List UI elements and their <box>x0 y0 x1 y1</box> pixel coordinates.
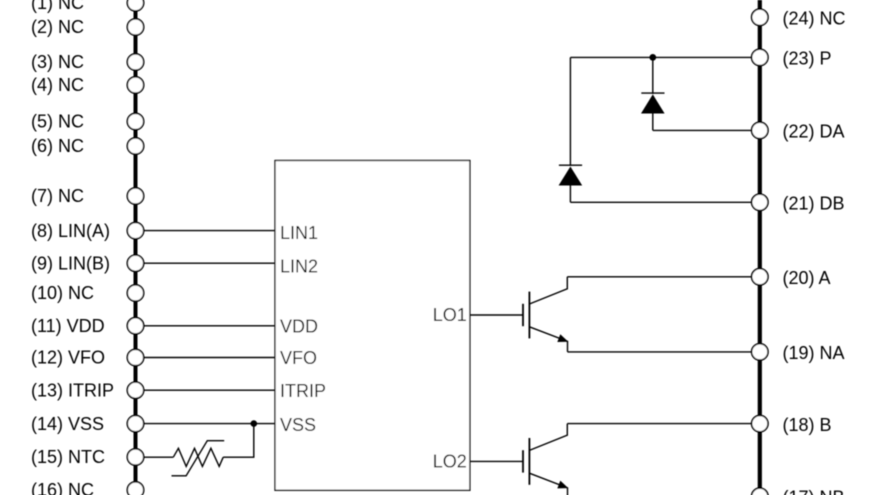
wire D2 anode to pin 21 DB <box>570 201 751 203</box>
pin 9 circle <box>127 255 143 271</box>
pin 14 circle <box>127 415 143 431</box>
wire pin 15 NTC to thermistor <box>144 456 174 458</box>
pin 13 circle <box>127 382 143 398</box>
transistor Q2 emitter arrow <box>557 481 568 489</box>
pin 2 circle <box>127 19 143 35</box>
svg-text:LIN2: LIN2 <box>280 257 318 277</box>
pin 20 circle <box>752 269 768 285</box>
diode D1 triangle <box>641 94 665 113</box>
transistor Q2 collector lead <box>529 424 567 451</box>
svg-text:(1) NC: (1) NC <box>31 0 84 13</box>
svg-text:(22) DA: (22) DA <box>783 122 845 142</box>
transistor Q2 emitter lead <box>529 473 567 495</box>
pin 24 circle <box>752 9 768 25</box>
svg-text:(11) VDD: (11) VDD <box>31 316 105 336</box>
svg-text:(10) NC: (10) NC <box>31 283 94 303</box>
svg-text:(8) LIN(A): (8) LIN(A) <box>31 221 110 241</box>
pin 12 circle <box>127 349 143 365</box>
svg-text:(23) P: (23) P <box>783 49 832 69</box>
junction dot on P wire <box>649 54 656 61</box>
diode D2 triangle <box>559 167 583 186</box>
transistor Q1 body bar <box>528 292 530 339</box>
diode D1 anode lead <box>652 114 654 131</box>
diode D1 cathode bar <box>641 92 664 94</box>
svg-text:(21) DB: (21) DB <box>783 194 845 214</box>
pin 18 circle <box>752 415 768 431</box>
junction dot on VSS wire <box>251 420 258 427</box>
wire D1 anode to pin 22 DA <box>653 129 752 131</box>
svg-text:(7) NC: (7) NC <box>31 186 84 206</box>
pin 3 circle <box>127 54 143 70</box>
svg-text:(2) NC: (2) NC <box>31 17 84 37</box>
wire pin 12 VFO to U1 <box>144 357 275 359</box>
pin 11 circle <box>127 318 143 334</box>
svg-text:(18) B: (18) B <box>783 415 832 435</box>
pin 8 circle <box>127 222 143 238</box>
pin 15 circle <box>127 449 143 465</box>
IC block U1 <box>275 161 470 491</box>
wire U1 LO2 output to gate <box>470 460 523 462</box>
svg-text:ITRIP: ITRIP <box>280 381 326 401</box>
transistor Q1 gate bar <box>522 304 524 326</box>
wire pin 11 VDD to U1 <box>144 325 275 327</box>
transistor Q1 collector lead <box>529 277 567 304</box>
wire pin 14 VSS to U1 <box>144 423 275 425</box>
svg-text:(14) VSS: (14) VSS <box>31 414 104 434</box>
svg-text:LO1: LO1 <box>433 305 467 325</box>
wire pin 13 ITRIP to U1 <box>144 389 275 391</box>
svg-text:(4) NC: (4) NC <box>31 75 84 95</box>
pin 10 circle <box>127 285 143 301</box>
pin 19 circle <box>752 344 768 360</box>
svg-text:(5) NC: (5) NC <box>31 112 84 132</box>
right pin bus (pins 17-24) <box>758 0 762 495</box>
svg-text:VFO: VFO <box>280 348 317 368</box>
svg-text:VSS: VSS <box>280 415 316 435</box>
diode D2 anode lead <box>569 186 571 203</box>
diode D2 cathode bar <box>559 164 582 166</box>
wire collector to bus <box>567 276 751 278</box>
svg-text:(20) A: (20) A <box>783 268 831 288</box>
svg-text:(12) VFO: (12) VFO <box>31 348 105 368</box>
svg-text:(19) NA: (19) NA <box>783 343 845 363</box>
svg-text:VDD: VDD <box>280 317 318 337</box>
transistor Q2 gate bar <box>522 450 524 472</box>
svg-text:(6) NC: (6) NC <box>31 136 84 156</box>
diode D1 (P to DA) cathode lead <box>652 57 654 94</box>
pin 6 circle <box>127 138 143 154</box>
left pin bus (pins 1-16) <box>134 0 138 495</box>
svg-text:(9) LIN(B): (9) LIN(B) <box>31 253 110 273</box>
pin 1 circle <box>127 0 143 11</box>
transistor Q1 emitter lead <box>529 327 567 352</box>
transistor Q2 body bar <box>528 438 530 485</box>
wire pin 8 LIN(A) to U1 <box>144 230 275 232</box>
pin 22 circle <box>752 122 768 138</box>
wire thermistor to VSS junction <box>223 424 254 458</box>
pin 23 circle <box>752 49 768 65</box>
diode D2 (P to DB) cathode lead <box>569 57 571 166</box>
svg-text:(16) NC: (16) NC <box>31 480 94 495</box>
pin 7 circle <box>127 188 143 204</box>
svg-text:LO2: LO2 <box>433 452 467 472</box>
thermistor NTC slash mark <box>172 441 225 476</box>
pin 21 circle <box>752 194 768 210</box>
svg-text:(24) NC: (24) NC <box>783 9 846 29</box>
svg-text:(13) ITRIP: (13) ITRIP <box>31 380 114 400</box>
wire emitter to bus <box>568 351 752 353</box>
svg-text:(15) NTC: (15) NTC <box>31 447 105 467</box>
wire U1 LO1 output to gate <box>470 314 523 316</box>
wire net P from pin 23 <box>570 56 751 58</box>
wire collector to bus <box>567 423 751 425</box>
wire pin 9 LIN(B) to U1 <box>144 262 275 264</box>
pin 5 circle <box>127 113 143 129</box>
pin 17 circle <box>752 488 768 495</box>
thermistor RT (NTC) zigzag <box>173 448 223 466</box>
svg-text:LIN1: LIN1 <box>280 223 318 243</box>
svg-text:(3) NC: (3) NC <box>31 52 84 72</box>
svg-text:(17) NB: (17) NB <box>783 488 845 495</box>
pin 4 circle <box>127 77 143 93</box>
transistor Q1 emitter arrow <box>557 334 568 342</box>
pin 16 circle <box>127 482 143 495</box>
